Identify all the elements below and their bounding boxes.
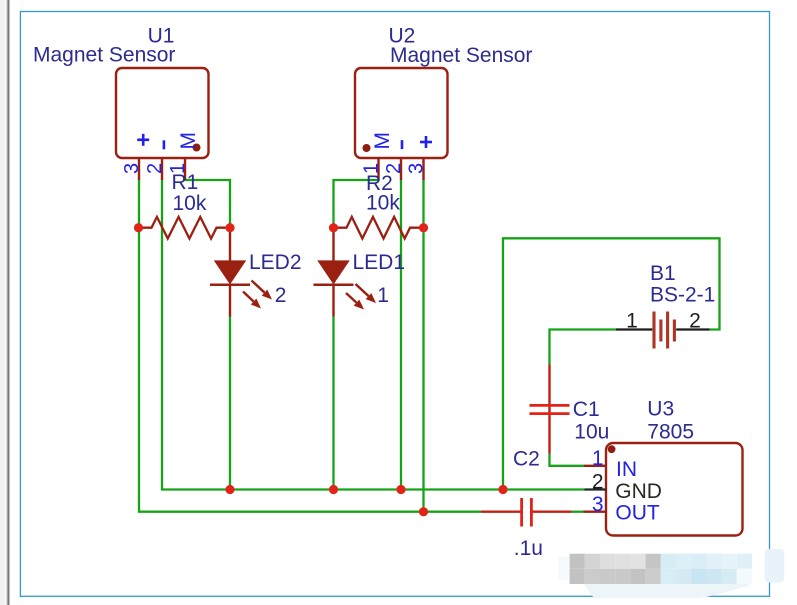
svg-text:GND: GND (615, 480, 662, 503)
svg-text:C2: C2 (513, 448, 540, 471)
svg-text:2: 2 (383, 163, 405, 174)
svg-text:1: 1 (377, 284, 389, 307)
svg-text:B1: B1 (650, 262, 676, 285)
svg-text:IN: IN (616, 458, 637, 481)
svg-text:2: 2 (592, 471, 604, 494)
svg-text:2: 2 (275, 284, 287, 307)
svg-text:OUT: OUT (615, 502, 660, 525)
svg-text:U3: U3 (647, 398, 674, 421)
svg-text:C1: C1 (573, 398, 600, 421)
svg-text:LED1: LED1 (353, 251, 406, 274)
svg-text:BS-2-1: BS-2-1 (650, 284, 715, 307)
svg-text:2: 2 (144, 163, 166, 174)
svg-text:1: 1 (592, 447, 604, 470)
svg-text:1: 1 (626, 310, 638, 333)
svg-text:7805: 7805 (647, 421, 694, 444)
svg-text:M: M (371, 132, 394, 150)
svg-text:10u: 10u (574, 421, 609, 444)
svg-text:1: 1 (361, 163, 383, 174)
svg-text:.1u: .1u (514, 537, 543, 560)
svg-text:3: 3 (592, 493, 604, 516)
svg-text:2: 2 (689, 310, 701, 333)
svg-text:1: 1 (167, 163, 189, 174)
svg-text:10k: 10k (173, 192, 207, 215)
svg-text:Magnet Sensor: Magnet Sensor (33, 44, 175, 67)
svg-text:3: 3 (406, 163, 428, 174)
svg-text:LED2: LED2 (249, 251, 302, 274)
svg-text:3: 3 (121, 163, 143, 174)
svg-text:M: M (177, 132, 200, 150)
svg-text:10k: 10k (366, 192, 400, 215)
svg-text:Magnet Sensor: Magnet Sensor (390, 44, 532, 67)
